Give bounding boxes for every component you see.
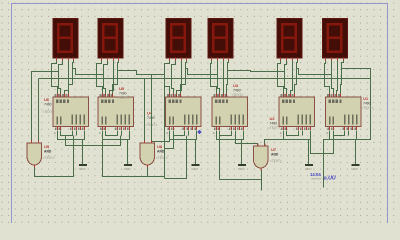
svg-text:A: A (99, 131, 101, 135)
svg-text:<TEXT>: <TEXT> (232, 93, 244, 97)
wire U1 CKA drop to probe (324, 131, 330, 188)
carry wire section5-6 (297, 69, 332, 75)
reset/clock wires below U2 (284, 131, 311, 159)
7-seg display DS6 (323, 19, 348, 62)
svg-text:U5: U5 (119, 86, 125, 91)
svg-text:0000: 0000 (191, 167, 198, 171)
wire bundle display DS4 to U3 outputs (211, 61, 229, 94)
ground under U5 (124, 158, 132, 171)
svg-text:A: A (54, 131, 56, 135)
svg-text:7490: 7490 (147, 116, 155, 120)
wire bus C: U3 CKB to U7 output (220, 131, 262, 180)
svg-text:0000: 0000 (124, 167, 131, 171)
svg-text:7490: 7490 (44, 103, 52, 107)
wire U7 input 1 from U3 reset (236, 131, 258, 147)
wire U4 CKA to gate2 input (152, 131, 170, 142)
svg-text:U6: U6 (44, 97, 50, 102)
long reset wire across sheet (39, 78, 371, 80)
counter IC U4 74LS90 (166, 93, 202, 134)
AND gate U8 (140, 141, 155, 168)
wire U4 CKB to bus B riser (165, 131, 174, 149)
counter IC U3 74LS90 (212, 93, 248, 134)
reset/clock wires below U5 (103, 131, 130, 159)
svg-text:<TEXT>: <TEXT> (156, 156, 168, 160)
svg-text:AND: AND (157, 150, 165, 154)
wire bundle display DS6 to U1 outputs (325, 61, 344, 94)
svg-text:U4: U4 (147, 111, 153, 116)
reset/clock wires below U3 (217, 131, 244, 159)
blue junction diamond (197, 130, 202, 135)
reset/clock wires below U6 (58, 131, 85, 159)
AND gate U7 (254, 144, 269, 171)
wire bus B to U4 reset riser (165, 136, 187, 179)
wire gate2 inputs riser 2 (151, 75, 153, 141)
carry wire section2-3 (118, 71, 165, 179)
carry wire section3-4 (186, 69, 218, 75)
wire U7 output probe stub (261, 170, 263, 191)
ground under U4 (191, 158, 199, 171)
svg-text:A: A (213, 131, 215, 135)
ground under U6 (79, 158, 87, 171)
svg-text:0000: 0000 (305, 167, 312, 171)
wire gate1 input riser 1 (32, 72, 59, 141)
svg-text:U7: U7 (271, 147, 277, 152)
svg-text:0000: 0000 (79, 167, 86, 171)
wire U7 input 2 from U2 CKA (265, 140, 284, 147)
7-seg display DS1 (53, 19, 78, 62)
7-seg display DS3 (166, 19, 191, 62)
ground under U2 (305, 158, 313, 171)
svg-text:<TEXT>: <TEXT> (43, 110, 55, 114)
wire bundle display DS3 to U4 outputs (165, 61, 187, 94)
svg-text:U1: U1 (363, 96, 369, 101)
svg-text:A: A (166, 131, 168, 135)
svg-text:<TEXT>: <TEXT> (362, 106, 374, 110)
carry wire section4-5 (228, 71, 285, 72)
svg-text:A: A (280, 131, 282, 135)
wire gate1 input riser 2 (38, 79, 40, 141)
svg-text:<TEXT>: <TEXT> (43, 156, 55, 160)
7-seg display DS2 (98, 19, 123, 62)
counter IC U1 74LS90 (326, 93, 362, 134)
wire U1 CKB link to U2 reset (311, 131, 334, 154)
wire U6 reset bus (66, 136, 121, 146)
svg-text:7490: 7490 (363, 102, 371, 106)
svg-text:real-time: real-time (311, 177, 322, 181)
svg-text:U9: U9 (44, 144, 50, 149)
svg-text:A: A (326, 131, 328, 135)
ground under U1 (351, 158, 359, 171)
wire gate2 output to bus B (147, 165, 149, 177)
svg-text:0000: 0000 (238, 167, 245, 171)
svg-text:<TEXT>: <TEXT> (118, 96, 130, 100)
svg-text:7490: 7490 (270, 122, 278, 126)
reset/clock wires below U1 (330, 131, 357, 159)
counter IC U5 74LS90 (98, 93, 134, 134)
wire bus B: U5 clock drop (103, 131, 165, 177)
wire gate2 inputs riser 1 (144, 79, 146, 141)
ground under U3 (238, 158, 246, 171)
7-seg display DS5 (277, 19, 302, 62)
svg-text:U3: U3 (233, 83, 239, 88)
svg-text:AND: AND (44, 150, 52, 154)
svg-text:AND: AND (271, 153, 279, 157)
svg-text:<TEXT>: <TEXT> (268, 126, 280, 130)
counter IC U6 74LS90 (53, 93, 89, 134)
svg-text:U2: U2 (270, 116, 276, 121)
svg-text:7490: 7490 (119, 92, 127, 96)
svg-text:o,UU: o,UU (324, 176, 336, 182)
7-seg display DS4 (208, 19, 233, 62)
wire bundle display DS5 to U2 outputs (278, 61, 298, 94)
AND gate U9 (27, 141, 42, 168)
wire gate output bus A (35, 136, 74, 177)
svg-text:7490: 7490 (233, 89, 241, 93)
wire bundle display DS1 to U6 outputs (52, 61, 74, 94)
reset/clock wires below U4 (170, 131, 197, 159)
carry wire section1-2 (73, 69, 104, 75)
counter IC U2 74LS90 (279, 93, 315, 134)
wire bundle display DS2 to U5 outputs (97, 61, 119, 94)
carry wire section6 right riser (342, 69, 371, 140)
svg-text:<TEXT>: <TEXT> (270, 159, 282, 163)
svg-text:0000: 0000 (351, 167, 358, 171)
svg-text:U8: U8 (157, 144, 163, 149)
